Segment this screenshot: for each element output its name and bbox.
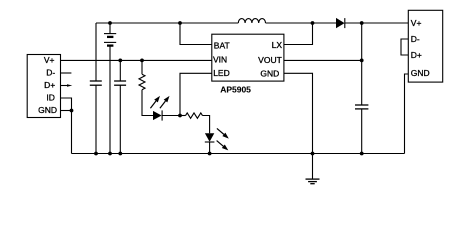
- node VOUT tee: [360, 59, 364, 63]
- node rail C1: [94, 152, 98, 156]
- wire R1 bottom lead to LED1: [142, 90, 153, 116]
- svg-text:VIN: VIN: [213, 55, 227, 65]
- wire LED1 to node: [162, 115, 180, 117]
- LED D2 (photodiode arrows up-right): [150, 96, 169, 121]
- node output top: [360, 21, 364, 25]
- wire C2 top lead: [119, 60, 121, 81]
- wire left connector ID/GND bracket down to rail: [60, 98, 71, 154]
- node rail C3: [360, 152, 364, 156]
- resistor R2: [186, 113, 203, 118]
- svg-text:VOUT: VOUT: [258, 55, 282, 65]
- wire output vertical top: [361, 23, 363, 105]
- wire LED2 to ground rail: [209, 142, 211, 154]
- wire top rail mid segment: [266, 22, 337, 24]
- svg-text:D+: D+: [411, 50, 422, 60]
- node rail C2: [118, 152, 122, 156]
- wire R2 leads: [180, 115, 186, 117]
- wire right connector D-/D+ bracket: [401, 39, 408, 55]
- wire left connector D- stub: [60, 72, 71, 74]
- IC U1 AP5905 body: [212, 34, 284, 81]
- connector J1 body (left): [27, 55, 60, 118]
- wire left connector GND stub: [60, 110, 71, 112]
- node LED1 anode junction: [178, 114, 182, 118]
- LED D3 (photodiode arrows down-right): [205, 128, 229, 150]
- node C2 tap on VIN: [118, 59, 122, 63]
- svg-text:V+: V+: [44, 55, 55, 65]
- wire C2 bottom lead: [119, 85, 121, 153]
- connector J2 body (right): [408, 10, 442, 82]
- resistor R1: [139, 74, 145, 90]
- wire C1 bottom lead: [95, 85, 97, 153]
- wire VOUT pin to output node: [284, 59, 362, 61]
- svg-text:D+: D+: [44, 80, 55, 90]
- svg-text:D-: D-: [411, 34, 420, 44]
- svg-text:LX: LX: [272, 40, 283, 50]
- wire left connector D+ stub: [60, 84, 72, 87]
- capacitor C3: [355, 105, 368, 109]
- svg-text:BAT: BAT: [214, 40, 230, 50]
- svg-text:GND: GND: [260, 68, 279, 78]
- wire C3 bottom lead: [361, 109, 363, 154]
- svg-text:AP5905: AP5905: [220, 85, 251, 95]
- wire BAT tap from top rail: [180, 23, 212, 45]
- node battery positive: [108, 21, 112, 25]
- svg-text:GND: GND: [411, 68, 430, 78]
- svg-text:V+: V+: [411, 18, 422, 28]
- wire LX pin to top rail: [284, 23, 313, 45]
- svg-text:D-: D-: [46, 68, 55, 78]
- wire right connector GND down to rail: [405, 74, 409, 154]
- svg-text:LED: LED: [213, 68, 230, 78]
- ground symbol: [306, 154, 320, 184]
- diode D1: [336, 18, 345, 28]
- node ID/GND tee: [70, 109, 74, 113]
- node rail IC GND: [311, 152, 315, 156]
- inductor L1: [238, 19, 265, 23]
- capacitor C2: [114, 81, 126, 85]
- capacitor C1: [90, 81, 102, 85]
- wire left vertical from top rail corner: [95, 23, 97, 81]
- node R1 tap on VIN: [140, 59, 144, 63]
- wire battery negative lead down to ground rail: [109, 46, 111, 154]
- node rail LED2: [208, 152, 212, 156]
- wire ground rail: [72, 153, 405, 155]
- wire node up to IC LED pin: [180, 73, 212, 115]
- node rail battery: [108, 152, 112, 156]
- svg-text:GND: GND: [38, 105, 57, 115]
- wire top rail right segment: [345, 22, 409, 24]
- wire VIN net: left connector V+ to IC VIN: [60, 59, 212, 61]
- wire top rail left segment: [96, 22, 238, 24]
- node LX tap: [311, 21, 315, 25]
- node BAT tap: [178, 21, 182, 25]
- wire R1 top lead: [141, 60, 143, 74]
- battery BT1: [104, 23, 116, 46]
- wire IC GND pin down to ground rail: [284, 73, 313, 153]
- svg-text:ID: ID: [46, 93, 55, 103]
